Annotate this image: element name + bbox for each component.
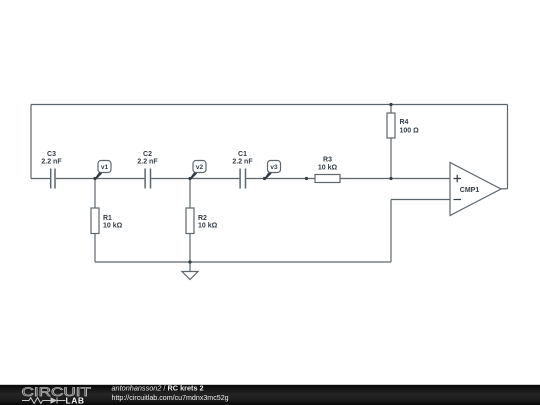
wire bottom rail	[95, 261, 391, 263]
wire left vertical	[30, 105, 32, 179]
svg-text:R3: R3	[323, 157, 332, 164]
svg-text:2.2 nF: 2.2 nF	[232, 159, 253, 166]
ground	[182, 272, 198, 280]
wire right vertical (feedback to output)	[507, 105, 509, 189]
CircuitLab logo diode triangle	[51, 397, 58, 403]
wire ground stub	[189, 262, 191, 272]
node dot v2 junction	[188, 177, 191, 180]
svg-text:2.2 nF: 2.2 nF	[41, 159, 62, 166]
svg-text:100 Ω: 100 Ω	[400, 128, 420, 135]
wire v2 drop to R2	[189, 179, 191, 209]
svg-text:v2: v2	[196, 164, 204, 171]
wire inverting input lead	[391, 199, 450, 201]
svg-text:10 kΩ: 10 kΩ	[318, 164, 338, 171]
svg-text:10 kΩ: 10 kΩ	[198, 223, 218, 230]
wire main rail segment 1	[31, 178, 50, 180]
svg-text:C2: C2	[143, 151, 152, 158]
capacitor C2	[145, 169, 150, 189]
wire R2 bottom lead	[189, 234, 191, 263]
svg-text:CMP1: CMP1	[460, 187, 480, 194]
node dot R4 bottom junction	[389, 177, 392, 180]
wire R1 bottom lead	[94, 234, 96, 263]
svg-text:R1: R1	[103, 215, 112, 222]
capacitor C1	[240, 169, 245, 189]
node dot ground junction	[188, 260, 191, 263]
svg-text:R4: R4	[400, 119, 409, 126]
resistor R2	[186, 208, 218, 234]
wire R4 top lead	[390, 105, 392, 114]
capacitor C3	[51, 169, 55, 189]
resistor R3	[315, 157, 340, 183]
wire main rail segment 2	[56, 178, 145, 180]
wire main rail segment 5	[340, 178, 450, 180]
svg-text:2.2 nF: 2.2 nF	[137, 159, 158, 166]
wire v1 drop to R1	[94, 179, 96, 209]
svg-text:LAB: LAB	[66, 396, 85, 405]
probe v2	[189, 161, 206, 180]
svg-text:http://circuitlab.com/cu7mdnx3: http://circuitlab.com/cu7mdnx3mc52g	[112, 394, 229, 402]
wire op-amp output stub	[501, 188, 508, 190]
CircuitLab logo wordmark	[22, 385, 92, 399]
svg-text:antonhansson2 / RC krets 2: antonhansson2 / RC krets 2	[112, 384, 204, 393]
wire main rail segment 3	[151, 178, 239, 180]
footer bar	[0, 385, 540, 405]
wire R4 bottom lead	[390, 138, 392, 179]
svg-text:C3: C3	[47, 151, 56, 158]
svg-text:R2: R2	[198, 215, 207, 222]
resistor R4	[387, 113, 419, 138]
wire main rail segment 4	[246, 178, 315, 180]
svg-text:10 kΩ: 10 kΩ	[103, 223, 123, 230]
node dot v3 junction	[263, 177, 266, 180]
probe v1	[94, 161, 111, 180]
resistor R1	[91, 208, 123, 234]
node dot v1 junction	[93, 177, 96, 180]
op-amp U1 CMP1	[450, 163, 501, 216]
svg-text:v3: v3	[270, 164, 278, 171]
wire inverting feedback vertical	[390, 200, 392, 263]
node dot before R3	[305, 177, 308, 180]
node dot R4 top junction	[389, 103, 392, 106]
wire top rail	[31, 104, 508, 106]
probe v3	[264, 161, 281, 180]
svg-text:v1: v1	[101, 164, 109, 171]
CircuitLab logo resistor-diode line	[22, 398, 66, 404]
svg-text:C1: C1	[238, 151, 247, 158]
